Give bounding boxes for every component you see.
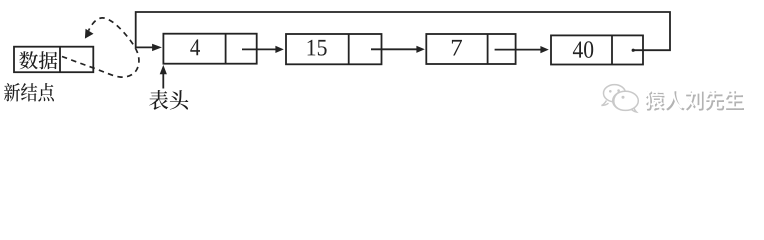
arrow: node 4 next -> node 15 [242, 48, 277, 50]
new node box with data cell 数据 and pointer cell [14, 47, 93, 72]
node box: data 4 with pointer cell [163, 34, 256, 64]
label 数据 (data) inside new node [19, 51, 57, 69]
dashed curve arrowhead [85, 29, 94, 39]
arrow: node 7 next -> node 40 [495, 49, 542, 51]
junction dot: start of circular link inside node 40 pointer cell [632, 49, 635, 52]
node box: data 15 with pointer cell [286, 34, 382, 64]
label 表头 (list head) [149, 90, 188, 110]
watermark text 猿人刘先生 [644, 90, 742, 110]
arrow: node 15 next -> node 7 [371, 48, 418, 50]
head pointer arrow (表头) pointing up at node 4 [162, 73, 164, 89]
wire: circular link from node 40 pointer cell, up over the top, back to head of list [136, 12, 670, 50]
value 40 [573, 41, 593, 58]
value 15 [308, 40, 327, 56]
value 7 [452, 40, 462, 56]
arrowhead into node 4 left edge [152, 44, 162, 51]
watermark logo icon (two speech bubbles) [602, 85, 639, 112]
dashed curve: new node pointer loop with arrowhead at new node top-right corner [62, 18, 139, 77]
label 新结点 (new node) [4, 83, 54, 102]
node box: data 7 with pointer cell [426, 34, 515, 64]
node box: data 40 with pointer cell [551, 35, 643, 64]
value 4 [190, 39, 200, 55]
watermark text shadow 猿人刘先生 [646, 91, 744, 111]
